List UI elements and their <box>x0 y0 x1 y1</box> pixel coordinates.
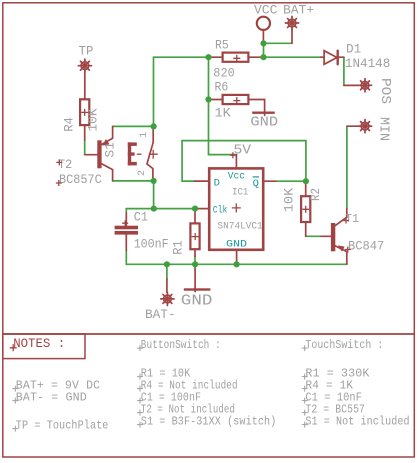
IC1 pin name Qbar <box>253 177 259 190</box>
svg-text:GND: GND <box>226 239 247 251</box>
wire MIN down to T1 collector <box>346 126 348 208</box>
svg-text:IC1: IC1 <box>232 188 248 199</box>
notes col3 header cross <box>302 345 308 351</box>
transistor T2 collector <box>102 164 113 181</box>
label BC857C origin cross <box>56 180 62 186</box>
capacitor C1 bottom lead <box>125 235 127 251</box>
svg-text:R2: R2 <box>309 188 323 201</box>
junction S1 pin1 node <box>151 123 157 129</box>
wire 5V horizontal to IC Vcc <box>209 154 237 156</box>
svg-text:10K: 10K <box>86 108 101 131</box>
transistor T2 emitter arrow <box>102 139 109 146</box>
wire R6 right lead <box>249 100 264 116</box>
wire T2 emitter rail y126.4 <box>113 125 154 127</box>
switch S1 pin 1 <box>152 127 154 142</box>
notes col3 cross R4 <box>302 386 308 392</box>
resistor R4 origin cross <box>81 109 88 116</box>
notes col2 cross T2 <box>137 410 143 416</box>
notes divider line <box>3 333 415 335</box>
IC1 Vcc pin <box>235 155 237 168</box>
wire Clk rail y208.6 <box>126 208 197 210</box>
wire VCC drop to R5 line <box>263 43 265 57</box>
svg-text:T1: T1 <box>345 212 359 226</box>
wire T1 emitter to rail <box>346 263 348 264</box>
svg-text:1: 1 <box>139 132 150 138</box>
svg-text:BC857C: BC857C <box>59 173 102 187</box>
IC1 origin cross <box>232 203 241 212</box>
wire MIN lead <box>347 125 359 127</box>
resistor R5 <box>223 53 249 62</box>
junction R5 right <box>260 54 266 60</box>
wire into D pin <box>182 180 195 182</box>
wire C1 bottom to rail <box>125 251 127 265</box>
wire BAT- drop <box>166 264 168 279</box>
pad TP <box>78 59 91 72</box>
svg-text:1N4148: 1N4148 <box>345 57 390 71</box>
wire R2 top lead <box>305 181 307 195</box>
svg-text:2: 2 <box>137 170 148 176</box>
junction VCC node <box>260 40 266 46</box>
transistor T2 base bar <box>97 140 101 168</box>
svg-text:Clk: Clk <box>213 205 228 217</box>
wire R2 bottom lead <box>305 223 307 236</box>
svg-text:MIN: MIN <box>376 117 392 141</box>
wire Q pin to R2 node <box>276 180 306 182</box>
IC1 Clk pin <box>198 208 210 210</box>
wire T1 base lead <box>321 235 331 237</box>
wire T2 collector to S1 pin2 y180.9 <box>113 180 154 182</box>
notes col2 cross R4 <box>137 386 143 392</box>
svg-text:POS: POS <box>377 78 393 104</box>
IC1 GND pin <box>236 250 238 264</box>
resistor R2 origin cross <box>302 206 309 213</box>
pad BAT- <box>161 292 174 305</box>
svg-text:TouchSwitch :: TouchSwitch : <box>305 338 383 352</box>
pad BAT+ <box>285 16 298 29</box>
junction BAT- rail <box>164 261 170 267</box>
notes col3 cross T2 <box>302 410 308 416</box>
junction GND rail <box>192 261 198 267</box>
svg-text:D1: D1 <box>346 42 361 57</box>
IC1 Q pin <box>263 180 276 182</box>
ground symbol main stem <box>194 264 196 291</box>
wire R6 left lead <box>209 99 222 101</box>
notes col2 cross R1 <box>137 374 143 380</box>
IC1 D pin <box>195 180 209 182</box>
label 5V origin cross <box>230 152 236 158</box>
svg-text:GND: GND <box>250 116 278 131</box>
switch S1 actuator <box>147 142 153 164</box>
wire Qbar feedback top horizontal y140.6 <box>182 140 306 142</box>
junction S1 pin2 node <box>151 178 157 184</box>
transistor T2 emitter <box>102 126 113 144</box>
notes column1 cross2 <box>12 398 18 404</box>
svg-text:TP = TouchPlate: TP = TouchPlate <box>16 418 109 432</box>
svg-text:R6: R6 <box>215 81 229 95</box>
svg-text:T2: T2 <box>58 158 72 172</box>
transistor T1 collector <box>335 209 347 226</box>
IC1 box <box>209 168 263 249</box>
wire R5 right lead <box>249 56 263 58</box>
junction R6 left <box>205 96 211 102</box>
svg-text:S1: S1 <box>104 142 118 158</box>
svg-text:NOTES :: NOTES : <box>13 337 65 351</box>
svg-text:Vcc: Vcc <box>228 172 245 183</box>
wire VCC lead <box>262 30 264 43</box>
wire C1 top corner <box>125 209 127 213</box>
svg-text:VCC: VCC <box>254 2 278 17</box>
junction R1 top <box>192 206 198 212</box>
junction Clk rail left <box>151 206 157 212</box>
wire R5 left lead <box>209 56 222 58</box>
resistor R1 <box>190 223 199 249</box>
notes col2 cross S1 <box>137 422 143 428</box>
wire Qbar feedback right vertical x305.9 <box>305 141 307 182</box>
wire R1 top lead <box>194 209 196 223</box>
wire VCC to BAT+ horizontal <box>264 42 292 44</box>
svg-text:R1: R1 <box>172 240 186 254</box>
transistor T2 origin cross <box>56 159 62 165</box>
notes column1 cross3 <box>12 426 18 432</box>
wire R5 to diode anode <box>264 56 322 58</box>
svg-text:BC847: BC847 <box>348 239 384 253</box>
wire left column x153.5 down to emitter rail <box>153 57 155 126</box>
wire POS lead <box>344 84 359 86</box>
switch S1 pin 2 <box>147 164 153 178</box>
wire R1 bottom to rail <box>194 257 196 265</box>
resistor R2 <box>301 196 310 222</box>
diode D1 <box>324 51 338 65</box>
svg-text:Q: Q <box>253 178 259 190</box>
notes col3 cross R1 <box>302 374 308 380</box>
ground symbol at R6 <box>252 112 275 114</box>
wire BAT+ lead <box>291 30 293 44</box>
capacitor C1 plate top <box>115 226 138 230</box>
wire BAT- lead <box>166 279 168 292</box>
notes col2 cross C1 <box>137 398 143 404</box>
NOTES title origin cross <box>10 344 17 351</box>
NOTES title box <box>3 334 85 359</box>
pad POS <box>358 79 371 92</box>
notes col3 cross S1 <box>302 422 308 428</box>
svg-text:BAT+: BAT+ <box>283 2 314 17</box>
wire TP lead <box>84 72 86 98</box>
switch S1 fixed contact E shape <box>128 142 137 165</box>
junction IC GND rail <box>234 261 240 267</box>
wire net 5V-R5-R6 horizontal y57 <box>154 56 210 58</box>
wire x208.5 column down to 5V corner <box>208 57 210 154</box>
svg-text:R5: R5 <box>215 38 229 52</box>
capacitor C1 plate bottom <box>115 231 138 235</box>
notes col2 header cross <box>137 345 143 351</box>
pad MIN <box>358 120 371 133</box>
wire ground rail y264.3 <box>126 263 347 265</box>
resistor R4 <box>80 99 89 125</box>
wire R4 bottom lead <box>84 126 86 140</box>
switch S1 origin cross <box>149 150 158 159</box>
svg-text:S1 = B3F-31XX (switch): S1 = B3F-31XX (switch) <box>141 415 277 429</box>
svg-text:820: 820 <box>213 67 235 81</box>
svg-text:1K: 1K <box>215 106 232 120</box>
svg-text:TP: TP <box>79 45 94 59</box>
wire diode cathode lead <box>338 56 344 58</box>
svg-text:10K: 10K <box>282 188 297 213</box>
resistor R5 origin cross <box>233 55 240 62</box>
svg-text:100nF: 100nF <box>134 237 169 251</box>
svg-text:S1 = Not included: S1 = Not included <box>305 415 409 429</box>
transistor T1 origin cross <box>343 218 349 224</box>
junction R5 left <box>205 54 211 60</box>
svg-text:C1: C1 <box>134 211 148 225</box>
transistor T1 emitter <box>335 246 347 264</box>
switch S1 dash <box>137 153 142 155</box>
junction Q R2 node <box>303 178 309 184</box>
resistor R6 <box>223 95 249 104</box>
ground symbol main bar <box>184 288 211 290</box>
notes column1 cross1 <box>12 386 18 392</box>
wire R2 bottom to T1 base <box>306 235 321 237</box>
wire T2 base lead <box>85 154 98 156</box>
svg-text:BAT- = GND: BAT- = GND <box>16 390 87 404</box>
svg-text:SN74LVC1: SN74LVC1 <box>218 222 263 233</box>
label BC847 origin cross <box>345 247 351 253</box>
svg-text:ButtonSwitch :: ButtonSwitch : <box>141 338 221 352</box>
svg-text:R4: R4 <box>63 117 77 132</box>
capacitor C1 origin cross <box>122 220 128 226</box>
supply VCC circle <box>257 17 270 30</box>
wire Qbar feedback left vertical x182 <box>181 141 183 182</box>
svg-text:GND: GND <box>181 292 213 309</box>
svg-text:D: D <box>214 177 220 189</box>
capacitor C1 top lead <box>125 213 127 226</box>
wire diode cathode down to POS <box>343 57 345 85</box>
transistor T1 base bar <box>331 223 335 251</box>
wire R4 to T2 base green segment <box>84 140 86 154</box>
transistor T1 emitter arrow <box>338 245 345 251</box>
resistor R1 origin cross <box>192 233 199 240</box>
resistor R6 origin cross <box>233 97 240 104</box>
notes col3 cross C1 <box>302 398 308 404</box>
wire S1 pin2 down to Clk rail <box>153 181 155 209</box>
svg-text:BAT-: BAT- <box>145 307 176 322</box>
wire R1 bottom lead <box>194 250 196 256</box>
wire diode anode lead <box>321 56 325 58</box>
